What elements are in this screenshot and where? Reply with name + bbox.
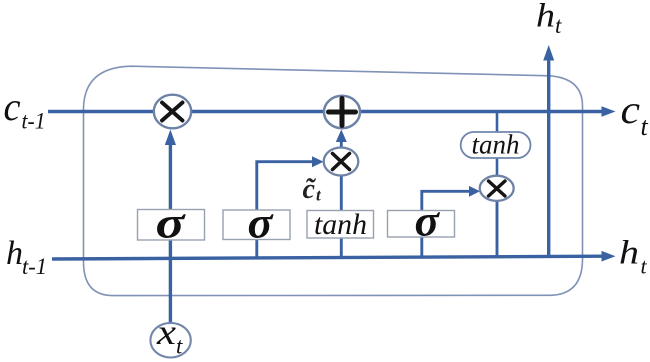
svg-text:h: h: [619, 235, 639, 272]
sigma box 3: [388, 211, 455, 238]
wire multiply3 to h line: [496, 200, 499, 257]
arrowhead into multiply node 2: [312, 156, 324, 167]
x_t input circle: [150, 323, 190, 358]
svg-text:t-1: t-1: [22, 109, 46, 134]
plus node: [324, 96, 360, 128]
svg-text:t: t: [641, 112, 649, 141]
sigma box 1: [138, 210, 205, 241]
arrowhead c_t: [602, 106, 616, 117]
arrowhead into plus node: [336, 130, 347, 143]
svg-text:c̃: c̃: [303, 174, 317, 205]
wire multiply2 to plus node: [340, 141, 343, 148]
svg-text:σ: σ: [248, 199, 274, 248]
wire h_t riser vertical: [547, 59, 550, 257]
svg-text:h: h: [536, 0, 555, 35]
svg-text:tanh: tanh: [314, 208, 367, 241]
arrowhead into multiply node 3: [469, 186, 480, 197]
svg-text:c: c: [4, 84, 21, 129]
svg-text:t: t: [316, 186, 322, 205]
svg-text:c: c: [621, 87, 641, 132]
wire tanh pill to multiply3: [496, 158, 499, 177]
arrowhead h_t top: [543, 45, 554, 61]
svg-text:h: h: [6, 235, 23, 272]
tanh pill: [461, 132, 531, 158]
svg-text:σ: σ: [415, 197, 441, 246]
arrowhead into multiply node 1: [165, 130, 176, 146]
multiply node 3: [480, 176, 514, 201]
multiply node 2: [324, 148, 359, 176]
arrowhead h_t right: [602, 251, 616, 262]
wire tanh box feed: [340, 176, 343, 258]
svg-text:tanh: tanh: [472, 130, 520, 160]
wire c line to tanh pill: [496, 112, 499, 133]
cell body rounded rectangle: [84, 66, 583, 295]
multiply node 1: [154, 95, 191, 129]
wire x_t input vertical: [169, 144, 172, 323]
svg-text:t: t: [555, 13, 562, 38]
wire h line (bottom): [52, 256, 603, 259]
sigma box 2: [223, 210, 290, 240]
svg-text:x: x: [156, 312, 176, 352]
wire sigma2 to multiply2: [257, 162, 314, 259]
svg-text:t: t: [176, 334, 183, 359]
svg-text:t-1: t-1: [22, 254, 47, 279]
svg-text:t: t: [641, 254, 648, 279]
svg-text:σ: σ: [156, 199, 187, 248]
wire c line (cell state): [48, 110, 603, 113]
wire sigma3 to multiply3: [422, 191, 471, 257]
tanh box: [307, 211, 374, 239]
